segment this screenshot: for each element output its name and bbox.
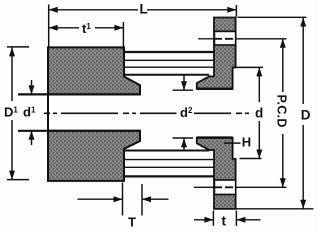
svg-text:H: H bbox=[242, 135, 251, 150]
svg-text:D: D bbox=[301, 108, 311, 123]
svg-text:P.C.D: P.C.D bbox=[275, 95, 289, 128]
svg-text:t: t bbox=[222, 213, 227, 228]
svg-text:L: L bbox=[140, 2, 148, 17]
svg-text:d: d bbox=[255, 106, 263, 121]
svg-text:T: T bbox=[128, 214, 136, 229]
